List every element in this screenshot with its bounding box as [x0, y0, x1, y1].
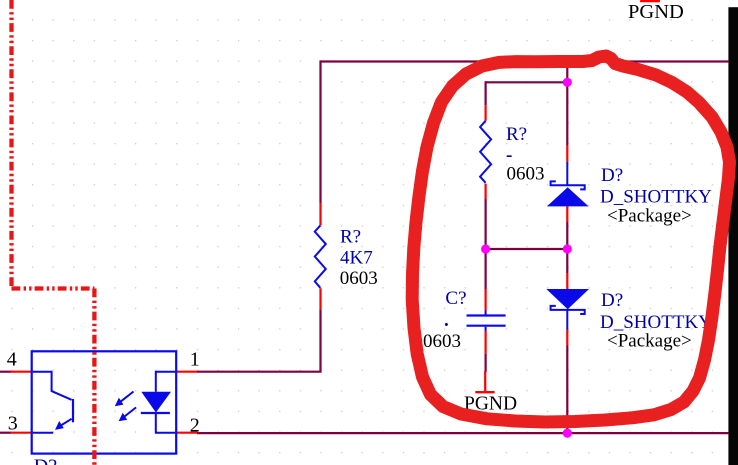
resistor R1 top pin — [485, 105, 487, 121]
capacitor C1 bottom plate — [467, 325, 506, 327]
selection dash line right vertical — [92, 289, 96, 465]
svg-text:C?: C? — [445, 288, 466, 309]
capacitor C1 bottom stub — [485, 327, 487, 331]
power port PGND bar top — [640, 0, 660, 2]
svg-text:D_SHOTTKY: D_SHOTTKY — [600, 187, 712, 208]
wire node stub x567 — [566, 60, 568, 145]
wire y249 horizontal — [486, 248, 568, 250]
svg-text:D?: D? — [601, 165, 623, 186]
capacitor C1 top stub — [485, 311, 487, 315]
svg-text:D?: D? — [601, 290, 623, 311]
resistor R1 bottom pin — [485, 184, 487, 199]
capacitor C1 top plate — [467, 314, 506, 316]
optocoupler phototransistor collector path — [33, 372, 72, 400]
wire left riser lower — [197, 309, 321, 371]
resistor R1 body — [480, 121, 491, 183]
junction node left mid — [481, 244, 490, 253]
svg-text:R?: R? — [506, 124, 527, 145]
resistor R2 body — [315, 225, 326, 287]
optocoupler light arrow 1 head — [115, 398, 124, 407]
diode D1 triangle — [547, 187, 589, 206]
wire opto pin3 stub — [0, 432, 11, 434]
diode D2 bottom pin — [566, 330, 568, 346]
optocoupler light arrow 2 head — [119, 413, 128, 422]
junction node right mid — [563, 244, 572, 253]
diode D1 bottom pin — [566, 206, 568, 222]
optocoupler LED cathode lead — [156, 413, 175, 433]
wire resistor R1 bottom to node — [485, 199, 487, 249]
optocoupler phototransistor emitter path — [59, 419, 72, 427]
svg-text:<Package>: <Package> — [607, 331, 692, 352]
wire left riser upper — [319, 60, 321, 203]
optocoupler emitter arrowhead — [55, 421, 64, 430]
optocoupler emitter lead — [33, 432, 54, 434]
wire capacitor to PGND — [485, 354, 487, 372]
svg-text:1: 1 — [190, 349, 200, 371]
svg-text:R?: R? — [340, 227, 361, 248]
svg-text:4K7: 4K7 — [340, 248, 373, 269]
window edge black bar — [728, 7, 738, 465]
diode D1 top pin — [566, 146, 568, 162]
resistor R2 bottom pin — [319, 288, 321, 309]
power port PGND stem bottom — [484, 371, 486, 392]
svg-text:D?: D? — [34, 456, 57, 465]
svg-text:0603: 0603 — [423, 331, 461, 352]
wire diode D1 bottom to node — [566, 222, 568, 249]
optocoupler LED triangle — [141, 392, 171, 413]
optocoupler light arrow 1 shaft — [121, 392, 134, 402]
wire diode D2 bottom drop — [566, 346, 568, 434]
wire y82 horizontal — [486, 81, 568, 83]
optocoupler LED cathode bar — [141, 412, 170, 414]
diode D1 inner pin stub — [566, 162, 568, 186]
svg-text:0603: 0603 — [507, 164, 545, 185]
pin 1 of opto — [175, 371, 197, 373]
capacitor C1 bottom pin — [485, 331, 487, 354]
optocoupler U1 body — [32, 351, 177, 453]
junction node at top — [563, 78, 572, 87]
svg-text:PGND: PGND — [628, 1, 684, 23]
wire top horizontal net — [321, 60, 729, 62]
resistor R2 top pin — [319, 203, 321, 225]
power port PGND bar bottom — [475, 391, 494, 393]
wire node to diode D2 — [566, 249, 568, 273]
optocoupler LED anode path — [156, 372, 175, 392]
svg-text:3: 3 — [8, 413, 18, 435]
pin 3 of opto — [10, 432, 32, 434]
svg-text:0603: 0603 — [340, 268, 378, 289]
pin 2 of opto — [175, 432, 197, 434]
diode D2 inner pin stub — [566, 310, 568, 330]
svg-text:4: 4 — [7, 349, 17, 371]
svg-text:-: - — [506, 145, 512, 166]
svg-text:2: 2 — [190, 414, 200, 436]
optocoupler phototransistor base bar — [72, 399, 74, 422]
pin 4 of opto — [10, 371, 32, 373]
junction node bottom — [563, 429, 572, 438]
diode D2 schottky cathode bar — [551, 306, 585, 314]
selection dash line horizontal — [12, 286, 95, 290]
svg-text:<Package>: <Package> — [607, 206, 692, 227]
wire resistor R1 top feed — [485, 81, 487, 105]
wire opto pin4 stub — [0, 371, 11, 373]
wire bottom horizontal net — [197, 432, 728, 434]
diode D2 triangle — [546, 289, 589, 309]
diode D1 schottky cathode bar — [551, 181, 585, 189]
selection dash line left vertical — [9, 0, 13, 289]
optocoupler light arrow 2 shaft — [125, 407, 137, 416]
wire node to capacitor — [485, 249, 487, 289]
svg-text:.: . — [444, 310, 449, 331]
diode D2 top pin — [566, 273, 568, 290]
capacitor C1 top pin — [485, 289, 487, 311]
red annotation circle — [412, 56, 729, 422]
